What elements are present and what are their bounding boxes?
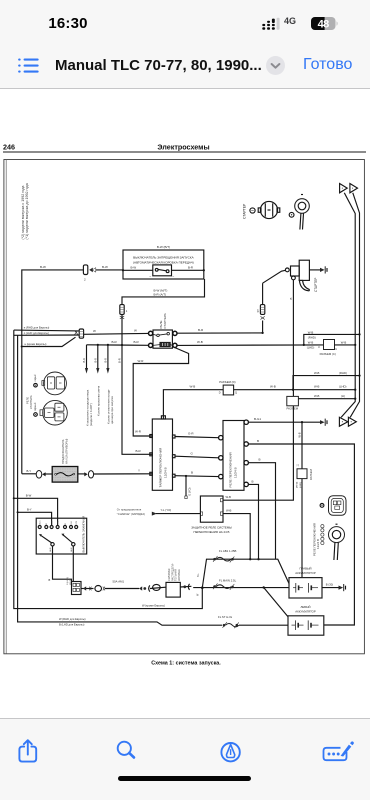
- wire non-Europe feed: [21, 337, 76, 347]
- svg-text:W-B: W-B: [226, 495, 232, 499]
- ring terminal: [295, 195, 310, 230]
- svg-text:B-R: B-R: [198, 328, 204, 332]
- svg-text:B-L: B-L: [197, 573, 200, 577]
- svg-text:B: B: [259, 458, 261, 462]
- svg-text:12/24 В: 12/24 В: [316, 539, 320, 549]
- connector on W-B bus: [297, 463, 314, 488]
- wire G-R timer to relay: [175, 432, 219, 438]
- wire B from starter down: [289, 280, 293, 397]
- svg-text:КОРОБКА: КОРОБКА: [178, 569, 181, 581]
- wire B-Y to ignition: [17, 507, 52, 525]
- svg-text:U: U: [335, 348, 337, 351]
- ignition switch arms: [39, 534, 75, 546]
- wire B to right battery: [248, 458, 275, 560]
- svg-text:В (30): В (30): [326, 583, 333, 587]
- connector/fuse on feed wires: [75, 329, 84, 338]
- connector pin circle: [320, 504, 324, 508]
- svg-text:ционера при запуске: ционера при запуске: [110, 396, 114, 424]
- svg-text:W-B: W-B: [190, 384, 196, 388]
- fuse 0.5A (instruments): [52, 467, 78, 483]
- ignition pin labels: [39, 520, 79, 525]
- svg-text:12/24 В: 12/24 В: [164, 467, 168, 478]
- connector on starter B line: [287, 396, 299, 410]
- svg-text:ТАЙМЕР ПЕРЕКЛЮЧЕНИЯ: ТАЙМЕР ПЕРЕКЛЮЧЕНИЯ: [159, 448, 163, 488]
- svg-text:W-B: W-B: [308, 340, 314, 344]
- svg-text:50А АМ1: 50А АМ1: [113, 580, 125, 584]
- svg-text:ПРЕДОХРАНИТЕЛЬ: ПРЕДОХРАНИТЕЛЬ: [61, 439, 65, 464]
- svg-text:B: B: [46, 523, 48, 525]
- wire RHD Europe feed: [14, 326, 79, 331]
- wire ignition to power box: [81, 586, 94, 590]
- wire FL AB1 branch: [197, 549, 275, 588]
- starter relay connector view 1: [42, 372, 66, 395]
- svg-text:IG2: IG2: [71, 520, 73, 524]
- wire AM2 down: [67, 546, 73, 585]
- wire W non-Europe bottom: [14, 498, 203, 608]
- svg-text:FL ST Н-IG: FL ST Н-IG: [218, 615, 232, 619]
- changeover relay 12/24V box: [223, 421, 244, 491]
- page header title: [157, 142, 209, 151]
- svg-text:(LHD): (LHD): [300, 482, 302, 488]
- svg-text:B-R: B-R: [82, 358, 86, 363]
- svg-text:ПРАВЫЙ: ПРАВЫЙ: [300, 567, 312, 571]
- svg-text:(LHD): (LHD): [339, 384, 347, 388]
- feed from CHARGE fuse: [117, 507, 201, 516]
- svg-text:(АВТОМАТИЧЕСКАЯ КОРОБКА ПЕРЕДА: (АВТОМАТИЧЕСКАЯ КОРОБКА ПЕРЕДАЧ): [133, 261, 194, 265]
- svg-text:ЗАЩИТНОЕ РЕЛЕ СИСТЕМЫ: ЗАЩИТНОЕ РЕЛЕ СИСТЕМЫ: [191, 525, 232, 529]
- svg-text:ST2: ST2: [76, 520, 78, 525]
- wire G timer to relay: [175, 451, 219, 457]
- svg-text:От предохранителя: От предохранителя: [117, 507, 142, 511]
- connector oval on B-Y wire: [36, 471, 52, 479]
- svg-text:Схема 1: система запуска.: Схема 1: система запуска.: [151, 661, 221, 667]
- relay pins (circles): [219, 420, 249, 487]
- neutral start switch (A/T) box: [123, 245, 204, 279]
- svg-text:B-Y: B-Y: [27, 507, 32, 511]
- list icon: [17, 57, 40, 75]
- wire B timer to relay: [175, 471, 219, 478]
- schematic caption: [151, 661, 221, 667]
- svg-text:РАЗЪЕМ: РАЗЪЕМ: [309, 469, 313, 480]
- wire B-R (A/T) below switch: [122, 279, 205, 454]
- svg-text:В (LHD для Европы): В (LHD для Европы): [59, 622, 84, 626]
- node main split: [196, 586, 203, 596]
- svg-text:РЕЛЕ ПЕРЕКЛЮЧЕНИЯ: РЕЛЕ ПЕРЕКЛЮЧЕНИЯ: [229, 452, 233, 487]
- harness arrow pair 1: [340, 184, 358, 193]
- svg-text:B-W: B-W: [102, 265, 108, 269]
- svg-text:(Н): (Н): [341, 394, 345, 398]
- connector oval 1: [95, 586, 139, 592]
- svg-text:СТАРТЕРА: СТАРТЕРА: [29, 395, 33, 409]
- svg-text:B-R: B-R: [117, 358, 121, 363]
- wire B-Y into fuse: [22, 469, 37, 474]
- svg-text:G-R: G-R: [188, 432, 194, 436]
- svg-text:B-R: B-R: [134, 340, 140, 344]
- svg-text:FL АВ1 1.25В: FL АВ1 1.25В: [219, 549, 236, 553]
- connector after power box: [180, 584, 191, 590]
- svg-text:ЛЕВЫЙ: ЛЕВЫЙ: [300, 605, 310, 609]
- status + nav bar: [0, 0, 370, 89]
- switch contact inside: [123, 265, 204, 279]
- svg-text:B: B: [257, 439, 259, 443]
- connector C: [303, 333, 361, 356]
- search icon: [113, 738, 139, 764]
- svg-text:B-R: B-R: [136, 449, 142, 453]
- svg-text:E (YO): E (YO): [188, 487, 192, 495]
- wire W-R relay to timer: [133, 348, 188, 436]
- relay 12/24 label vertical: [312, 523, 320, 556]
- wire W-B (H) branch: [298, 394, 356, 400]
- wire LHD Europe feed: [14, 331, 79, 335]
- connector pin black: [34, 402, 38, 416]
- svg-text:ACC: ACC: [39, 520, 42, 525]
- wire B-G1 to ground: [248, 417, 320, 423]
- svg-text:АККУМУЛЯТОР: АККУМУЛЯТОР: [295, 609, 316, 613]
- series link to left battery: [264, 588, 288, 617]
- connector pin gray: [34, 374, 38, 387]
- page number 246: [3, 142, 15, 151]
- svg-text:W-B: W-B: [308, 330, 314, 334]
- svg-text:~: ~: [172, 275, 174, 279]
- wire W-B (RHD) branch: [293, 371, 361, 390]
- svg-text:НА 0,5А (ПРИБОРЫ): НА 0,5А (ПРИБОРЫ): [65, 439, 69, 464]
- destination notes (rotated): [86, 385, 115, 426]
- svg-text:W-B: W-B: [226, 508, 232, 512]
- svg-text:W-B: W-B: [197, 340, 203, 344]
- fusible link FL MAIN: [213, 583, 234, 589]
- svg-text:В: В: [49, 578, 51, 582]
- starter solenoid terminal 50: [285, 268, 289, 272]
- wire B(30) to ground: [322, 583, 346, 592]
- svg-text:(*1) модели выпуска до 1992 го: (*1) модели выпуска до 1992 года: [25, 183, 29, 239]
- wire B-R relay to starter ST fuse: [177, 328, 264, 334]
- wire W-B protection relay down: [223, 508, 251, 560]
- connector C wire labels: [307, 330, 347, 349]
- svg-text:11: 11: [297, 463, 300, 466]
- wire connector D to right bus: [234, 384, 357, 391]
- wire W-B relay to connector C: [177, 340, 323, 345]
- svg-text:(RHD): (RHD): [308, 336, 316, 340]
- svg-text:B-R: B-R: [94, 358, 98, 363]
- svg-text:Q: Q: [235, 392, 237, 395]
- svg-text:W (RHD для Европы): W (RHD для Европы): [59, 617, 86, 621]
- ring terminal right: [329, 524, 345, 560]
- svg-text:(LHD): (LHD): [307, 346, 315, 350]
- bus W-B down to right battery: [298, 422, 303, 577]
- svg-text:Электросхемы: Электросхемы: [157, 142, 209, 151]
- branch wire to heater-cutoff relay: [104, 345, 110, 374]
- right battery: [289, 567, 322, 598]
- diagram frame: [4, 160, 365, 654]
- svg-text:B: B: [65, 523, 67, 525]
- svg-text:W-R: W-R: [135, 429, 142, 433]
- cellular signal bars: [262, 14, 282, 34]
- svg-text:(RHD): (RHD): [339, 371, 347, 375]
- wire Y fuse to timer: [78, 469, 153, 478]
- svg-text:ST: ST: [256, 309, 260, 313]
- svg-text:AM1: AM1: [49, 547, 52, 552]
- svg-text:Y-L (YO): Y-L (YO): [161, 508, 172, 512]
- svg-text:(*2) модели выпуска с 1992 год: (*2) модели выпуска с 1992 года: [21, 186, 25, 240]
- timer 12/24V box: [152, 416, 172, 491]
- wire fuse to solenoid: [263, 270, 286, 283]
- svg-text:W-B: W-B: [341, 340, 347, 344]
- starter solenoid body: [291, 260, 319, 292]
- svg-text:(RHD): (RHD): [297, 482, 299, 488]
- svg-text:чёрный: чёрный: [34, 402, 37, 411]
- svg-text:B-R (А/Т): B-R (А/Т): [154, 293, 167, 297]
- ignition switch box: [36, 516, 86, 554]
- wire B-R to timer middle pin: [136, 449, 142, 453]
- svg-text:B-Y: B-Y: [27, 469, 32, 473]
- svg-text:о (LHD для Европы): о (LHD для Европы): [24, 331, 49, 335]
- svg-text:B: B: [191, 471, 193, 475]
- svg-text:РАЗЪЕМ (С): РАЗЪЕМ (С): [320, 352, 336, 356]
- battery 48%: [311, 17, 339, 31]
- svg-text:B-W: B-W: [26, 493, 32, 497]
- svg-text:B-W: B-W: [40, 265, 46, 269]
- ignition pins top: [38, 526, 77, 529]
- relay 12/24 connector view: [329, 496, 347, 516]
- svg-text:W-B: W-B: [314, 394, 320, 398]
- svg-text:B-G1: B-G1: [254, 417, 261, 421]
- fuse 50A AM1: [113, 580, 150, 592]
- svg-text:W: W: [93, 329, 96, 333]
- connector oval 2: [150, 584, 166, 590]
- wire B lower pin down: [248, 479, 259, 560]
- svg-text:246: 246: [3, 142, 15, 151]
- fusible link FL ST: [218, 615, 288, 628]
- note (*1)(*2) model year text: [21, 183, 29, 239]
- svg-text:(модели с 1НОТ): (модели с 1НОТ): [89, 403, 93, 426]
- svg-text:"CHARGE" (ЗАРЯДКА): "CHARGE" (ЗАРЯДКА): [117, 512, 145, 516]
- svg-text:AM2: AM2: [70, 547, 73, 552]
- wire B-W to ignition: [13, 493, 58, 525]
- branch wire to A/C switch: [82, 345, 88, 374]
- svg-text:РАЗЪЕМ: РАЗЪЕМ: [287, 407, 299, 411]
- svg-text:Y: Y: [138, 469, 140, 473]
- svg-text:СТАРТЕРА: СТАРТЕРА: [163, 313, 167, 328]
- wire W-B timer to connector D: [163, 384, 223, 419]
- left battery: [288, 605, 324, 635]
- svg-text:W-B: W-B: [298, 432, 302, 437]
- svg-text:н (RHD для Европы): н (RHD для Европы): [24, 326, 50, 330]
- timer pin squares: [150, 435, 175, 478]
- svg-text:B: B: [252, 479, 254, 483]
- starter label: [243, 203, 247, 219]
- ground at starter: [309, 266, 327, 273]
- wire W/B Europe bottom: [18, 512, 222, 626]
- svg-text:2: 2: [84, 278, 86, 282]
- svg-text:G: G: [191, 451, 194, 455]
- svg-text:B-R: B-R: [112, 340, 118, 344]
- fuse 2: [83, 265, 95, 282]
- svg-text:FL MAIN 2.5L: FL MAIN 2.5L: [219, 579, 237, 583]
- svg-text:ВЫКЛЮЧАТЕЛЬ ЗАПРЕЩЕНИЯ ЗАПУСКА: ВЫКЛЮЧАТЕЛЬ ЗАПРЕЩЕНИЯ ЗАПУСКА: [133, 256, 194, 260]
- fuse 0.5A instruments label: [61, 439, 68, 464]
- wire AM1 down: [49, 546, 72, 582]
- svg-text:К реле прогрева свечи: К реле прогрева свечи: [97, 385, 101, 416]
- svg-text:серый: серый: [34, 374, 37, 382]
- relay U1 starter relay: [149, 330, 177, 348]
- svg-text:B-R: B-R: [188, 265, 193, 269]
- svg-text:АККУМУЛЯТОР: АККУМУЛЯТОР: [295, 571, 316, 575]
- wire B-W from left bus to neutral-start switch: [22, 265, 123, 474]
- svg-text:~: ~: [149, 275, 151, 279]
- starter terminal small circle: [250, 208, 255, 213]
- wire into right battery +: [276, 559, 290, 583]
- svg-text:B-R: B-R: [104, 358, 108, 363]
- ground for B-G1: [320, 419, 327, 426]
- svg-text:ПЕРЕКЛЮЧЕНИЯ НА 24 В: ПЕРЕКЛЮЧЕНИЯ НА 24 В: [194, 530, 230, 534]
- svg-text:W-B: W-B: [314, 384, 320, 388]
- svg-text:СТАРТЕР: СТАРТЕР: [314, 278, 318, 292]
- markup pen-in-circle icon: [219, 741, 243, 765]
- starter motor symbol: [258, 201, 280, 218]
- svg-text:ВЫКЛЮЧАТЕЛЬ ЗАЖИГАНИЯ: ВЫКЛЮЧАТЕЛЬ ЗАЖИГАНИЯ: [81, 516, 85, 553]
- connector D: [219, 380, 237, 395]
- svg-text:B-W: B-W: [131, 265, 137, 269]
- svg-text:W: W: [134, 329, 137, 333]
- power distribution box: [166, 563, 181, 597]
- left bus upper stubs: [6, 160, 17, 654]
- svg-text:D: D: [219, 392, 221, 395]
- wire B-R branch bus: [87, 340, 149, 346]
- wire W to starter relay: [84, 329, 149, 335]
- svg-text:W: W: [196, 593, 199, 596]
- starter relay connector view 2: [40, 400, 67, 425]
- ignition bottom pin labels: [49, 547, 73, 552]
- svg-text:U: U: [318, 346, 320, 349]
- label B-W (M/T) / B-R (A/T): [154, 288, 168, 296]
- battery terminal small circle: [289, 212, 294, 217]
- fuse 1 (main vertical): [117, 305, 128, 363]
- form fill icon: [320, 734, 356, 764]
- svg-text:W-B: W-B: [314, 371, 320, 375]
- svg-text:B-W (В/Т): B-W (В/Т): [157, 245, 170, 249]
- svg-text:РАЗЪЕМ (D): РАЗЪЕМ (D): [219, 380, 235, 384]
- wire B to left battery via right side: [248, 439, 354, 625]
- starter relay label: [159, 313, 167, 328]
- fusible link FL AB1: [213, 556, 234, 562]
- ignition harness connector: [72, 582, 82, 595]
- wire FL MAIN to right battery: [193, 579, 289, 589]
- svg-text:B: B: [289, 298, 293, 300]
- header rule: [3, 151, 366, 153]
- svg-text:н (кроме Европы): н (кроме Европы): [25, 342, 47, 346]
- fuse ST: [256, 283, 265, 333]
- wire E(YO) to protection relay: [186, 476, 192, 496]
- svg-text:W-R: W-R: [138, 359, 145, 363]
- svg-text:W-B: W-B: [270, 384, 276, 388]
- branch wire to glow relay: [94, 345, 100, 374]
- svg-text:W (кроме Европы): W (кроме Европы): [142, 603, 165, 607]
- wire starter B line down to protection relay: [223, 406, 293, 500]
- svg-text:СТАРТЕР: СТАРТЕР: [243, 203, 247, 219]
- starter relay connector label: [26, 395, 33, 409]
- starter terminal 30: [292, 276, 296, 280]
- svg-text:12/24 В: 12/24 В: [234, 467, 238, 478]
- node: switch box pins: [122, 269, 205, 271]
- share icon: [15, 736, 41, 766]
- harness arrow pair 2: [339, 417, 356, 426]
- svg-text:1: 1: [126, 309, 128, 313]
- protection relay 24V box: [185, 496, 232, 534]
- harness lead wires right side: [341, 193, 359, 417]
- terminal circles column: [321, 525, 324, 545]
